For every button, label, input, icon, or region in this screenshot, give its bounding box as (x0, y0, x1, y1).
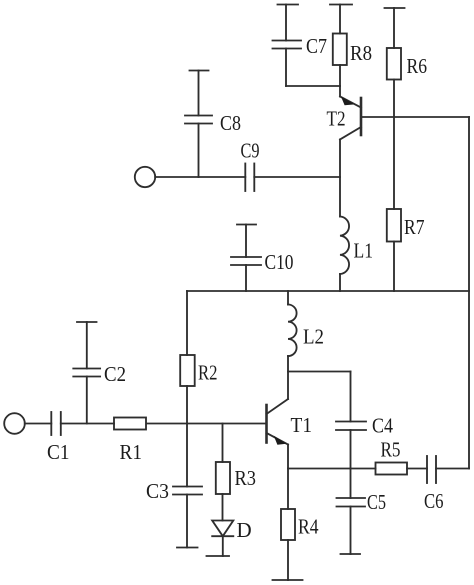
svg-text:C2: C2 (104, 362, 126, 386)
svg-text:R3: R3 (235, 466, 257, 490)
svg-text:R2: R2 (198, 361, 218, 385)
svg-text:R5: R5 (381, 438, 401, 462)
svg-text:L1: L1 (354, 239, 374, 263)
svg-text:T2: T2 (327, 107, 346, 131)
svg-text:C8: C8 (220, 111, 241, 135)
svg-text:C1: C1 (47, 440, 70, 464)
svg-text:C10: C10 (265, 250, 294, 274)
svg-text:C4: C4 (372, 414, 393, 438)
svg-text:R8: R8 (350, 41, 372, 65)
svg-text:C7: C7 (306, 34, 327, 58)
svg-text:T1: T1 (291, 413, 313, 437)
svg-text:D: D (237, 518, 252, 542)
svg-text:L2: L2 (303, 325, 324, 349)
svg-text:C9: C9 (241, 139, 260, 163)
svg-text:R6: R6 (407, 54, 428, 78)
svg-text:R7: R7 (404, 215, 425, 239)
svg-text:R1: R1 (120, 440, 143, 464)
svg-text:C3: C3 (146, 479, 169, 503)
svg-text:C6: C6 (424, 489, 444, 513)
svg-text:R4: R4 (298, 515, 319, 539)
svg-text:C5: C5 (367, 490, 386, 514)
